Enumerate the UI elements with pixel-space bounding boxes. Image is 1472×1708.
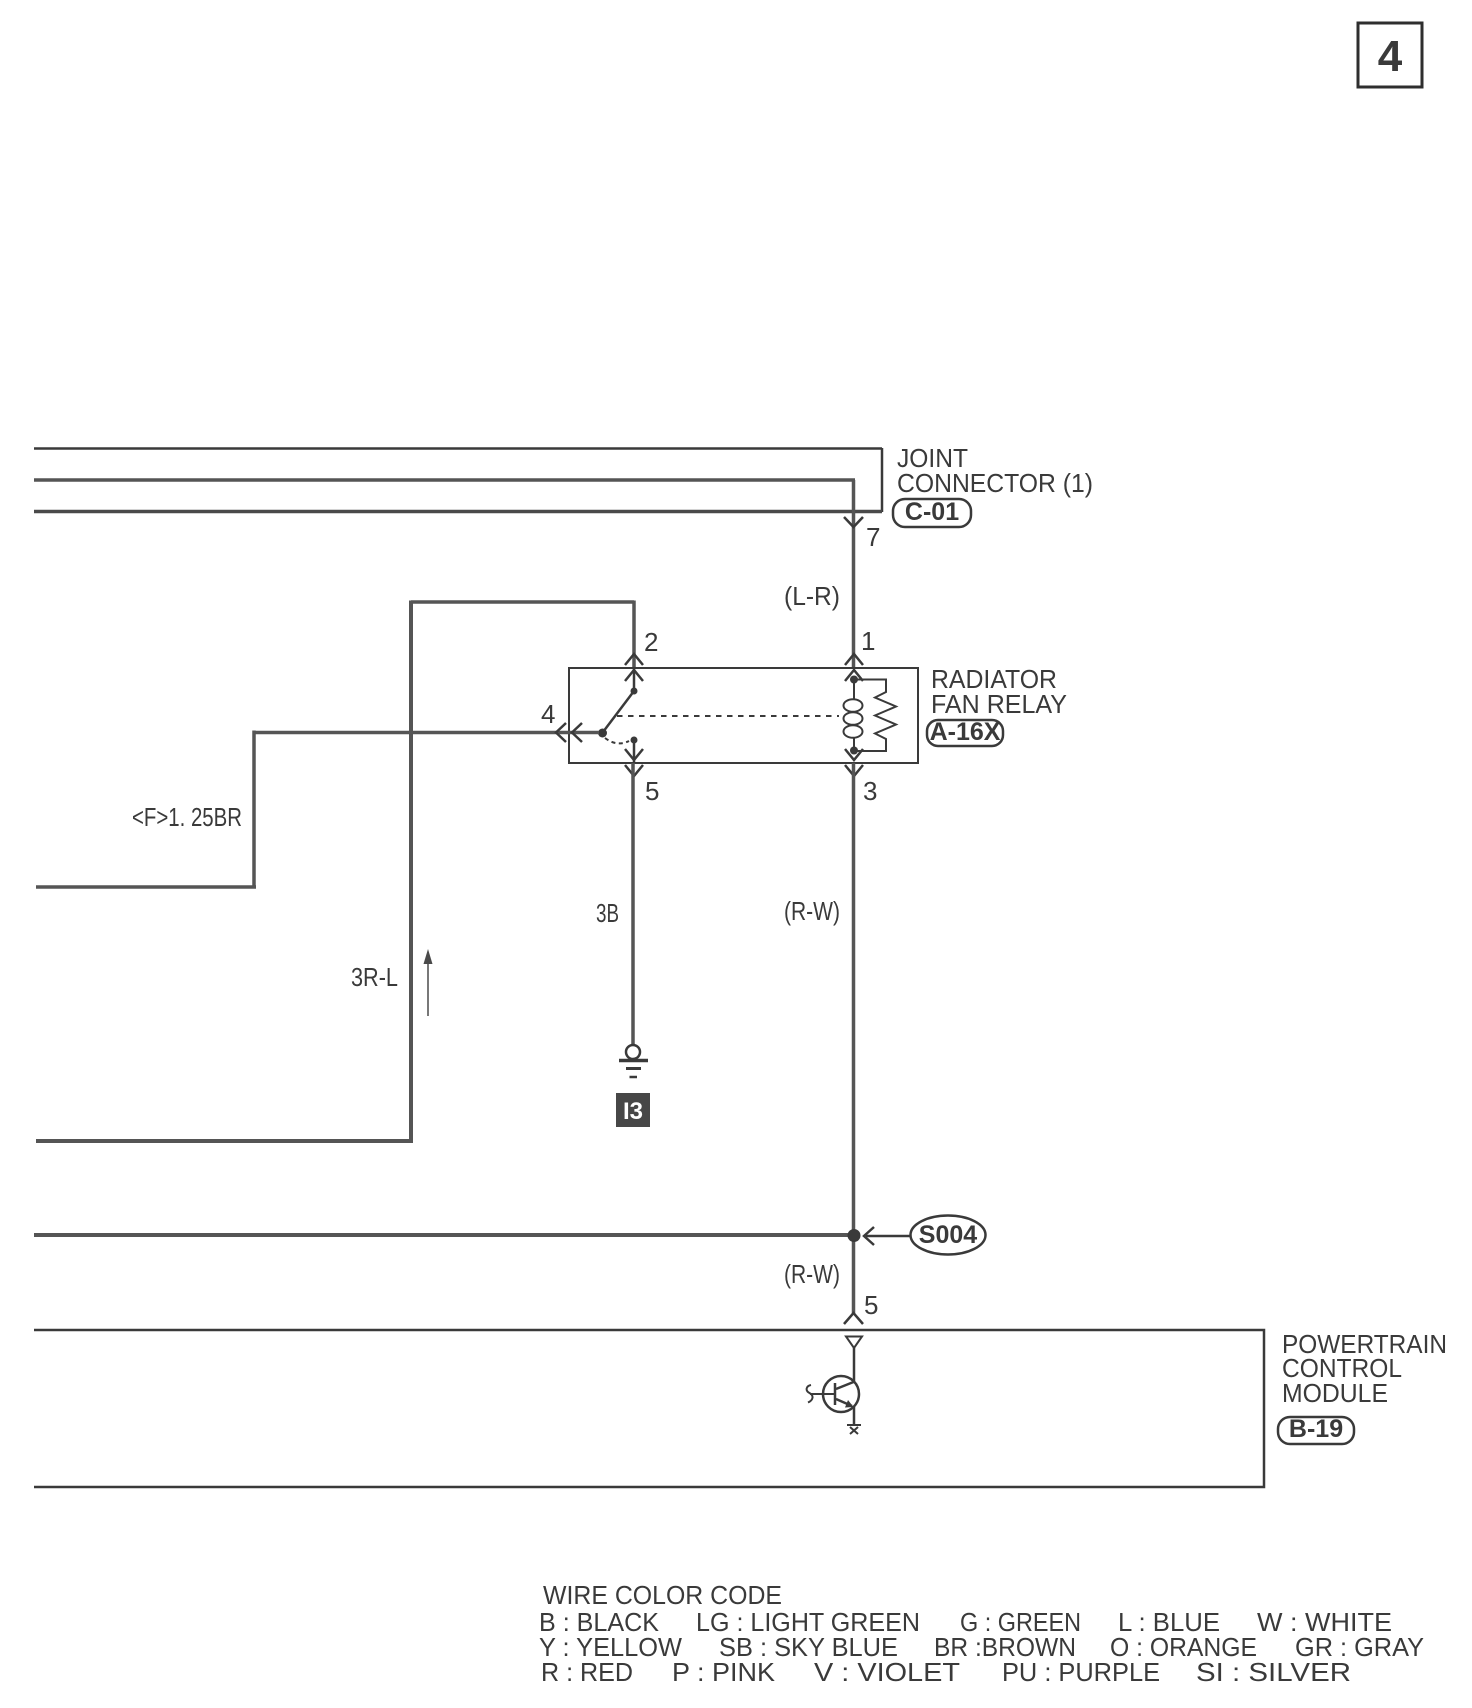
arrow pin 7 (844, 517, 863, 527)
relay coil (844, 680, 863, 751)
arrow pin 5 inside relay (625, 749, 643, 760)
internal ground marker (847, 1425, 861, 1434)
arrow pin 5 below relay (625, 765, 643, 776)
arrow pin 4 inside relay (572, 723, 582, 742)
PCM internal wire to transistor (853, 1348, 856, 1383)
direction arrow up on 3R-L (424, 949, 433, 1016)
PCM box (34, 1330, 1264, 1487)
joint connector right edge (881, 448, 884, 512)
svg-text:B-19: B-19 (1289, 1415, 1343, 1443)
emitter arrowhead (845, 1400, 854, 1408)
joint connector bottom line (34, 510, 882, 514)
wire to splice S004 horizontal (34, 1233, 854, 1237)
svg-text:R : RED: R : RED (541, 1657, 633, 1687)
ground code I3 (616, 1093, 650, 1127)
ground I3 (619, 1045, 648, 1077)
relay coil parallel resistor (854, 680, 896, 752)
svg-text:I3: I3 (623, 1098, 643, 1125)
arrow pin 3 inside relay (845, 749, 863, 760)
svg-text:CONNECTOR (1): CONNECTOR (1) (897, 468, 1093, 498)
junction node at S004 (848, 1229, 861, 1242)
svg-text:PU : PURPLE: PU : PURPLE (1002, 1657, 1160, 1687)
svg-text:4: 4 (541, 699, 555, 729)
svg-text:3B: 3B (596, 898, 619, 928)
label RADIATOR FAN RELAY (931, 664, 1067, 719)
transistor emitter (836, 1399, 852, 1406)
wire L-R horizontal from left to C-01 pin 7 (34, 478, 855, 482)
node at pin 2 stub (631, 688, 638, 695)
relay box A-16X (569, 668, 918, 763)
svg-text:FAN RELAY: FAN RELAY (931, 689, 1067, 719)
relay coil top node (850, 676, 858, 684)
arrow pin 1 inside relay (845, 670, 863, 681)
wire F 1.25BR vertical step (252, 731, 256, 888)
connector code C-01 (893, 498, 971, 527)
joint connector top line (34, 447, 882, 450)
relay switch pivot node (598, 729, 607, 738)
svg-text:<F>1. 25BR: <F>1. 25BR (132, 802, 242, 832)
arrow pin 1 above relay (845, 654, 863, 665)
emitter wire down (853, 1406, 856, 1424)
svg-text:SI : SILVER: SI : SILVER (1196, 1657, 1351, 1687)
relay switch arm (603, 691, 634, 732)
arrow pin 4 outside relay (556, 723, 566, 742)
svg-text:2: 2 (644, 627, 658, 657)
svg-text:1: 1 (861, 626, 875, 656)
svg-text:C-01: C-01 (905, 498, 959, 526)
wire (R-W) from relay pin 3 down to PCM (852, 763, 856, 1315)
relay pin 5 stub (633, 740, 636, 763)
svg-text:MODULE: MODULE (1282, 1378, 1388, 1408)
wire 3R-L vertical segment (409, 601, 413, 1143)
wire from 3R-L corner down to relay pin 2 (632, 601, 636, 669)
dashed arc pivot to pin 5 contact (605, 738, 629, 743)
wire (L-R) vertical from joint connector to relay pin 1 (852, 480, 856, 668)
svg-text:5: 5 (645, 776, 659, 806)
svg-text:V : VIOLET: V : VIOLET (814, 1657, 960, 1687)
connector code B-19 (1278, 1415, 1354, 1444)
svg-text:(R-W): (R-W) (784, 1259, 840, 1289)
transistor base bar (834, 1383, 837, 1405)
transistor collector (836, 1382, 854, 1389)
node at pin 5 contact (631, 737, 638, 744)
connector code A-16X (927, 718, 1003, 746)
relay switch pin 2 stub (633, 668, 636, 691)
arrow into PCM pin 5 (844, 1313, 863, 1324)
transistor base lead (810, 1393, 835, 1395)
svg-text:(R-W): (R-W) (784, 896, 840, 926)
wire 3B from relay pin 5 to ground (631, 763, 635, 1045)
svg-text:3: 3 (863, 776, 877, 806)
relay coil bottom node (850, 747, 858, 755)
svg-text:7: 7 (866, 522, 880, 552)
svg-text:4: 4 (1378, 32, 1403, 81)
PCM pin 5 open triangle (846, 1337, 862, 1349)
splice code S004 (911, 1216, 986, 1255)
wire F 1.25BR bottom horizontal (36, 885, 256, 889)
wire 3R-L bottom horizontal (36, 1139, 413, 1143)
wire pin 4 horizontal (254, 731, 599, 735)
label POWERTRAIN CONTROL MODULE (1282, 1329, 1447, 1408)
svg-text:(L-R): (L-R) (784, 581, 840, 611)
arrow pin 2 inside relay (625, 670, 643, 681)
svg-text:3R-L: 3R-L (351, 962, 398, 992)
base lead squiggle (807, 1385, 813, 1403)
page number box 4 (1358, 23, 1422, 87)
arrow pin 2 above relay (625, 654, 643, 665)
svg-text:S004: S004 (919, 1221, 977, 1249)
transistor circle (823, 1376, 859, 1412)
svg-text:A-16X: A-16X (930, 718, 1001, 746)
label JOINT CONNECTOR (1) (897, 443, 1093, 498)
dashed actuation line to coil (617, 715, 839, 717)
wire 3R-L top segment (411, 600, 634, 604)
svg-text:P : PINK: P : PINK (672, 1657, 776, 1687)
arrow pin 3 below relay (845, 765, 863, 776)
splice arrow S004 (864, 1227, 911, 1245)
svg-text:5: 5 (864, 1290, 878, 1320)
svg-text:WIRE COLOR CODE: WIRE COLOR CODE (543, 1580, 782, 1610)
wire color code legend (539, 1580, 1424, 1687)
